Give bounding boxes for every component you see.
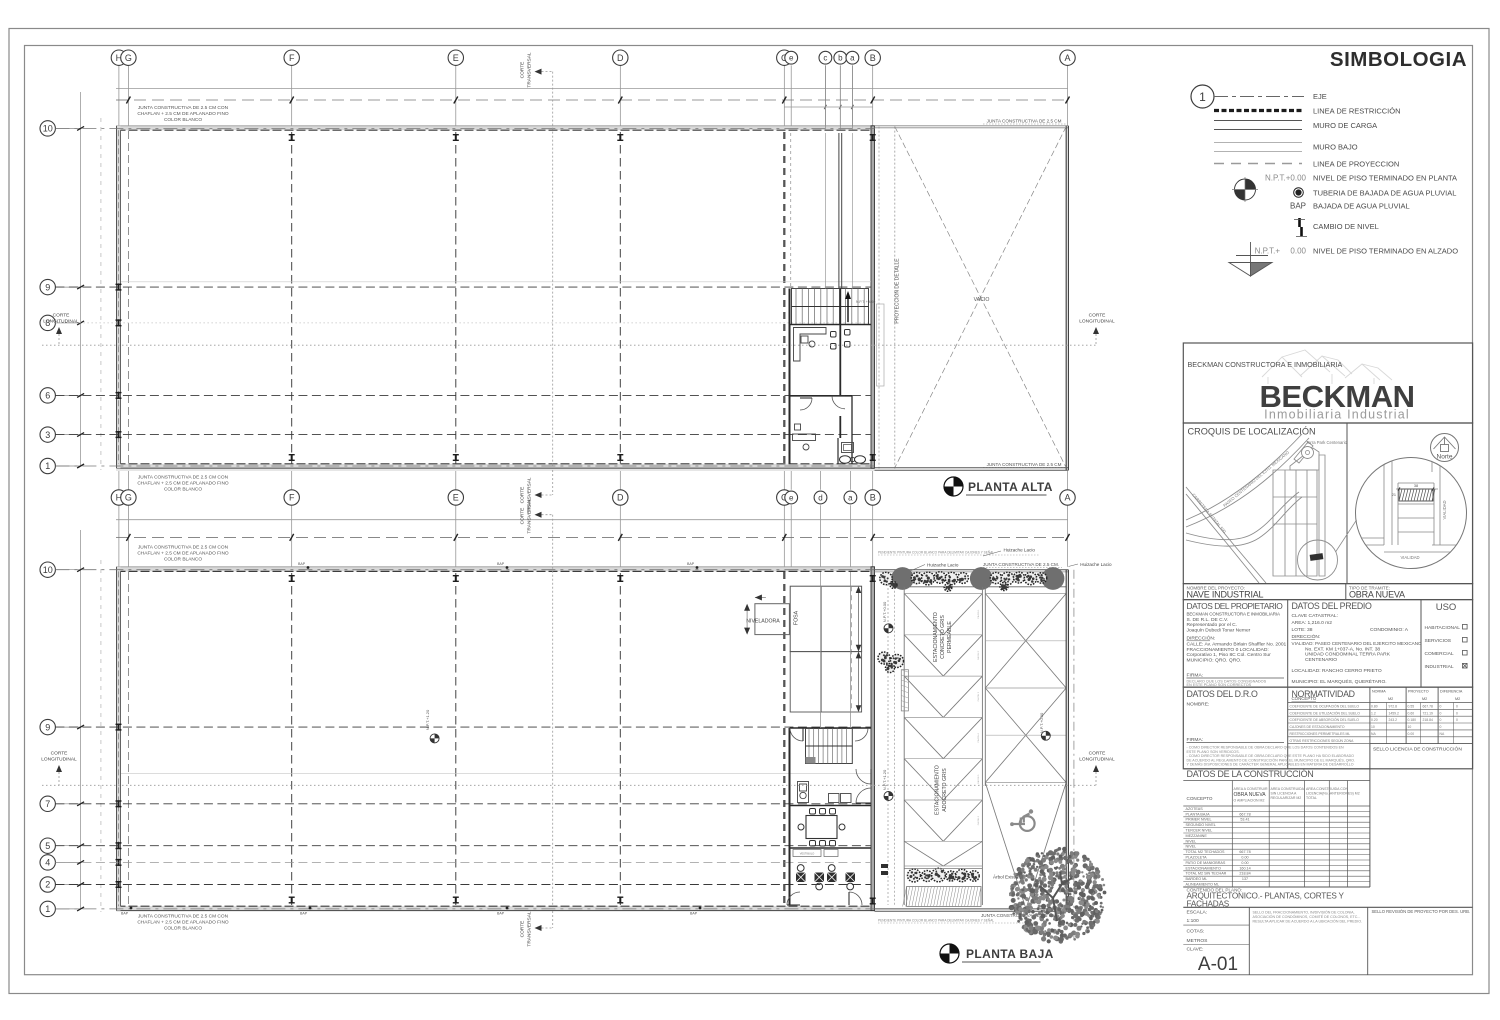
construccion table columns	[1231, 781, 1233, 888]
svg-text:VIALIDAD: VIALIDAD	[1400, 555, 1419, 560]
svg-text:53.41: 53.41	[1240, 818, 1249, 822]
corte longitudinal dotted line	[42, 344, 1097, 346]
svg-text:1459.2: 1459.2	[1389, 711, 1399, 715]
grid circle F (baja top)	[291, 505, 293, 567]
svg-text:REGULARIZAR M2: REGULARIZAR M2	[1271, 796, 1302, 800]
svg-text:CAJON 1: CAJON 1	[977, 609, 980, 619]
bay divider lines	[903, 587, 905, 905]
map site hatched lot	[1310, 553, 1324, 561]
column axis D dashed (alta)	[619, 132, 621, 464]
svg-text:AREA CONSTRUIDA CON: AREA CONSTRUIDA CON	[1306, 787, 1348, 791]
top dimension line	[116, 88, 1068, 90]
grid circle D (alta top)	[619, 65, 621, 125]
baja bottom wall	[117, 906, 875, 910]
grid circle a (baja top)	[849, 505, 851, 567]
map roundabout circle	[1302, 447, 1314, 459]
svg-text:Huizache Lacio: Huizache Lacio	[927, 563, 959, 568]
lower office desk	[793, 424, 816, 441]
faint projection line (baja)	[121, 773, 871, 775]
grid circle d (baja top)	[820, 505, 822, 567]
svg-text:Y DEMÁS DISPOSICIONES DE CARÁC: Y DEMÁS DISPOSICIONES DE CARÁCTER GENERA…	[1187, 763, 1354, 767]
svg-text:MURO BAJO: MURO BAJO	[1313, 143, 1358, 152]
svg-text:E: E	[453, 53, 459, 63]
svg-text:9: 9	[45, 282, 50, 292]
b axis line + wall	[839, 65, 841, 130]
column axis D dashed (baja)	[619, 573, 621, 905]
svg-text:PLANTA BAJA: PLANTA BAJA	[1186, 812, 1211, 816]
svg-text:10: 10	[43, 124, 53, 134]
column axis F dashed (baja)	[291, 573, 293, 905]
svg-text:CONCRETO GRIS: CONCRETO GRIS	[940, 615, 946, 659]
datos row box	[1183, 600, 1472, 688]
baja office top wall	[790, 727, 872, 729]
svg-text:AREA: 1,216.0 m2: AREA: 1,216.0 m2	[1292, 620, 1333, 626]
svg-text:METROS: METROS	[1187, 938, 1209, 944]
baja top wall	[117, 567, 875, 572]
interior wall mid office	[790, 395, 853, 397]
column axis E dashed (baja)	[455, 573, 457, 905]
baja left dimension line	[80, 530, 82, 909]
a axis line	[851, 65, 853, 130]
svg-text:21: 21	[1392, 493, 1396, 497]
dashed property line right	[1073, 570, 1075, 940]
left dimension line	[80, 92, 82, 466]
svg-text:A: A	[1064, 53, 1070, 63]
wall + label strip	[790, 847, 872, 849]
row 10 axis dashes (baja)	[55, 569, 874, 571]
svg-text:PATIO DE MANIOBRAS: PATIO DE MANIOBRAS	[1186, 861, 1226, 865]
svg-text:TOTAL M2 SIN TECHAR: TOTAL M2 SIN TECHAR	[1186, 872, 1227, 876]
grid circle row 8 (alta)	[55, 322, 80, 324]
svg-text:CLAVE:: CLAVE:	[1187, 947, 1204, 953]
svg-text:JUNTA CONSTRUCTIVA DE 2.5 CM: JUNTA CONSTRUCTIVA DE 2.5 CM CON	[138, 105, 229, 111]
svg-text:PERMEABLE: PERMEABLE	[947, 621, 953, 653]
svg-text:c: c	[823, 54, 827, 63]
row 3 dashed line	[55, 434, 871, 436]
desks upper office	[794, 328, 827, 362]
baja left wall	[117, 567, 121, 911]
svg-text:LONGITUDINAL: LONGITUDINAL	[1079, 319, 1115, 325]
svg-text:CAJON 2: CAJON 2	[977, 650, 980, 660]
fosa lower box	[790, 652, 861, 712]
svg-text:TUBERIA DE BAJADA DE AGUA PLUV: TUBERIA DE BAJADA DE AGUA PLUVIAL	[1313, 189, 1456, 198]
handicap symbol	[1010, 809, 1035, 831]
svg-text:COLOR BLANCO: COLOR BLANCO	[164, 117, 202, 123]
double entry doors right wall	[856, 769, 871, 784]
grid circle B (alta top)	[872, 65, 874, 125]
svg-text:CORTE: CORTE	[53, 313, 70, 319]
svg-text:CAJON 4: CAJON 4	[977, 733, 980, 743]
svg-text:2: 2	[45, 880, 50, 890]
svg-text:PLANTA BAJA: PLANTA BAJA	[966, 947, 1054, 961]
reception desk	[798, 782, 809, 803]
svg-text:BAP: BAP	[298, 562, 306, 566]
svg-text:CONDOMINIO: A: CONDOMINIO: A	[1370, 627, 1409, 633]
svg-text:Norte: Norte	[1437, 454, 1453, 461]
svg-text:ESCALA:: ESCALA:	[1187, 910, 1208, 916]
svg-text:COEFICIENTE DE ABSORCIÓN DEL S: COEFICIENTE DE ABSORCIÓN DEL SUELO	[1290, 717, 1360, 722]
grid circle E (baja top)	[455, 505, 457, 567]
svg-text:0.60: 0.60	[1408, 711, 1415, 715]
svg-text:0: 0	[1456, 718, 1458, 722]
svg-text:CAJONES DE ESTACIONAMIENTO: CAJONES DE ESTACIONAMIENTO	[1290, 725, 1345, 729]
croquis zoom circle	[1356, 458, 1467, 569]
svg-text:VACIO: VACIO	[974, 297, 990, 303]
svg-text:CENTENARIO: CENTENARIO	[1305, 657, 1337, 663]
svg-text:LONGITUDINAL: LONGITUDINAL	[43, 319, 79, 325]
svg-text:EJE: EJE	[1313, 92, 1327, 101]
svg-text:CHAFLAN + 2.5 CM DE APLANADO F: CHAFLAN + 2.5 CM DE APLANADO FINO	[137, 920, 229, 926]
svg-text:38: 38	[1414, 484, 1418, 488]
grid circle C (baja top)	[783, 505, 785, 567]
row 8 light line	[55, 322, 871, 324]
svg-text:0.20: 0.20	[1371, 718, 1378, 722]
svg-text:E: E	[453, 493, 459, 503]
svg-text:M2: M2	[1455, 697, 1460, 701]
svg-text:0: 0	[1440, 705, 1442, 709]
zoom circle hatched lot	[1399, 489, 1433, 501]
svg-text:BARDEO ML: BARDEO ML	[1186, 877, 1208, 881]
map development parcel outline	[1273, 442, 1325, 576]
grid circle row 7 (baja)	[55, 803, 80, 805]
svg-text:137: 137	[1242, 877, 1248, 881]
grid circle row 2 (baja)	[55, 884, 80, 886]
svg-text:FOSA: FOSA	[794, 610, 800, 625]
B wall column symbols	[870, 134, 876, 141]
workstation desks	[796, 873, 806, 883]
grid circle G (alta top)	[127, 65, 129, 125]
svg-text:667.78: 667.78	[1423, 705, 1433, 709]
grid circle row 9 (baja)	[55, 726, 80, 728]
row 4 dashed (baja)	[55, 861, 871, 863]
vacio area border	[878, 127, 880, 471]
svg-text:No. EXT. KM 1+037-A, No. INT.: No. EXT. KM 1+037-A, No. INT. 38	[1305, 646, 1380, 652]
svg-text:BAJADA DE AGUA PLUVIAL: BAJADA DE AGUA PLUVIAL	[1313, 202, 1410, 211]
svg-text:0: 0	[1440, 718, 1442, 722]
svg-text:TRANSVERSAL: TRANSVERSAL	[527, 498, 533, 534]
bottom hatch strip	[907, 887, 981, 907]
svg-text:SERVICIOS: SERVICIOS	[1425, 638, 1452, 644]
svg-text:ESTACIONAMIENTO: ESTACIONAMIENTO	[933, 612, 939, 662]
door arcs baja top	[790, 728, 803, 741]
svg-text:CAMBIO DE NIVEL: CAMBIO DE NIVEL	[1313, 222, 1379, 231]
meeting table	[806, 816, 837, 839]
svg-text:F: F	[289, 493, 295, 503]
svg-text:PENDIENTE PINTURA COLOR BLANCO: PENDIENTE PINTURA COLOR BLANCO PARA DELI…	[878, 918, 994, 923]
map S-curve road	[1186, 492, 1299, 540]
svg-text:ASOCIACIÓN DE CONDÓMINOS, COMI: ASOCIACIÓN DE CONDÓMINOS, COMITÉ DE COLO…	[1253, 914, 1361, 919]
svg-text:DATOS DEL PROPIETARIO: DATOS DEL PROPIETARIO	[1187, 601, 1284, 611]
svg-text:Inmobiliaria Industrial: Inmobiliaria Industrial	[1264, 408, 1410, 422]
svg-text:PLAZOLETA: PLAZOLETA	[1186, 856, 1208, 860]
door arcs alta office	[832, 396, 845, 409]
bottom planting bed shrubs	[908, 869, 921, 882]
svg-text:PROYECTO: PROYECTO	[1408, 690, 1429, 694]
svg-text:JUNTA CONSTRUCTIVA DE 2.5 CM: JUNTA CONSTRUCTIVA DE 2.5 CM CON	[138, 545, 229, 551]
svg-text:PRIMER NIVEL: PRIMER NIVEL	[1186, 818, 1212, 822]
alta left wall	[117, 126, 121, 468]
svg-text:0.00: 0.00	[1290, 247, 1306, 256]
svg-text:TRANSVERSAL: TRANSVERSAL	[527, 52, 533, 88]
svg-text:CORTE: CORTE	[51, 751, 68, 757]
svg-text:0.00: 0.00	[1408, 732, 1415, 736]
svg-text:S. DE R.L. DE C.V.: S. DE R.L. DE C.V.	[1187, 617, 1229, 623]
svg-text:10: 10	[1371, 725, 1375, 729]
bottom door arcs	[787, 892, 800, 905]
svg-text:NIVEL DE PISO TERMINADO EN ALZ: NIVEL DE PISO TERMINADO EN ALZADO	[1313, 247, 1458, 256]
svg-text:TRANSVERSAL: TRANSVERSAL	[527, 911, 533, 947]
row 7 dashed (baja)	[55, 803, 871, 805]
grid circle A (baja top)	[1067, 505, 1069, 567]
tree branches	[1040, 872, 1072, 921]
tree Huizache 1	[891, 567, 914, 590]
faint projection line (alta)	[121, 281, 871, 283]
svg-text:LONGITUDINAL: LONGITUDINAL	[41, 757, 77, 763]
svg-text:721.19: 721.19	[1423, 711, 1433, 715]
svg-text:1: 1	[45, 904, 50, 914]
alta right wall (B)	[871, 126, 875, 468]
svg-text:BAP: BAP	[497, 562, 505, 566]
svg-text:JUNTA CONSTRUCTIVA DE 2.5 CM: JUNTA CONSTRUCTIVA DE 2.5 CM CON	[138, 475, 229, 481]
svg-text:1:100: 1:100	[1187, 918, 1200, 924]
legend MURO BAJO	[1214, 142, 1302, 144]
svg-text:TOTAL M2 TECHADOS: TOTAL M2 TECHADOS	[1186, 850, 1226, 854]
svg-text:0.00: 0.00	[1241, 856, 1248, 860]
svg-text:CLAVE CATASTRAL:: CLAVE CATASTRAL:	[1292, 613, 1338, 619]
svg-text:UNIDAD CONDOMINAL TERRA PARK: UNIDAD CONDOMINAL TERRA PARK	[1305, 652, 1391, 658]
alta bottom wall	[117, 464, 875, 468]
svg-text:D: D	[617, 493, 624, 503]
FOSA box	[790, 586, 861, 651]
grid circle B (baja top)	[872, 505, 874, 567]
svg-text:CORTE: CORTE	[1089, 313, 1106, 319]
svg-text:B: B	[870, 53, 876, 63]
BECKMAN company box	[1183, 343, 1472, 423]
svg-text:ESTACIONAMIENTO: ESTACIONAMIENTO	[935, 765, 941, 815]
walkway shrub cluster	[878, 652, 890, 664]
legend npt quartered circle symbol	[1235, 179, 1256, 200]
d axis through office	[820, 572, 822, 728]
row 1 axis dashes	[55, 465, 874, 467]
grid circle b (alta top)	[839, 65, 841, 125]
corte longitudinal dotted (baja)	[42, 784, 1097, 786]
left dashed axis line	[100, 118, 102, 470]
stairs (baja)	[806, 729, 853, 764]
svg-text:Corporativo 1, Piso 8C Col. Ce: Corporativo 1, Piso 8C Col. Centro Sur	[1187, 652, 1272, 658]
svg-text:e: e	[789, 54, 794, 63]
svg-text:DIRECCIÓN:: DIRECCIÓN:	[1187, 635, 1216, 642]
parking area (baja right)	[887, 572, 889, 905]
last compressed stall row	[904, 841, 943, 866]
svg-text:0.55: 0.55	[1408, 705, 1415, 709]
svg-text:N.P.T.+0.00: N.P.T.+0.00	[1039, 712, 1044, 733]
svg-text:NIVEL DE PISO TERMINADO EN PLA: NIVEL DE PISO TERMINADO EN PLANTA	[1313, 174, 1457, 183]
grid circle F (alta top)	[291, 65, 293, 125]
svg-text:LINEA DE RESTRICCIÓN: LINEA DE RESTRICCIÓN	[1313, 107, 1401, 116]
tree Huizache 3	[1042, 567, 1065, 590]
svg-text:Huizache Lacio: Huizache Lacio	[1004, 548, 1036, 553]
svg-text:BAP: BAP	[497, 912, 505, 916]
planting band top edge	[875, 569, 1069, 571]
grid circle a (alta top)	[851, 65, 853, 125]
vacio right wall (A)	[1065, 126, 1067, 471]
svg-text:4: 4	[45, 858, 50, 868]
svg-text:SELLO DEL FRACCIONAMIENTO, IN/: SELLO DEL FRACCIONAMIENTO, IN/DIVISIÓN D…	[1253, 910, 1355, 915]
svg-text:b: b	[838, 54, 843, 63]
svg-text:LINEA DE PROYECCION: LINEA DE PROYECCION	[1313, 160, 1399, 169]
svg-text:NA: NA	[1440, 732, 1445, 736]
svg-text:9: 9	[45, 722, 50, 732]
svg-text:3: 3	[45, 430, 50, 440]
office left wall	[789, 289, 791, 465]
svg-text:DE ACUERDO AL REGLAMENTO DE CO: DE ACUERDO AL REGLAMENTO DE CONSTRUCCIÓN…	[1187, 757, 1355, 762]
legend LINEA DE PROYECCION	[1214, 163, 1302, 165]
svg-text:Terra Park Centenario: Terra Park Centenario	[1306, 440, 1348, 445]
right bay lower stalls	[985, 783, 1026, 909]
grid circle row 3 (alta)	[55, 434, 80, 436]
svg-text:CALLE: Av. Armando Birlain S: CALLE: Av. Armando Birlain Shaffler No. …	[1187, 642, 1287, 648]
svg-text:A: A	[1064, 493, 1070, 503]
svg-text:ALINEAMIENTO ML: ALINEAMIENTO ML	[1186, 883, 1220, 887]
bench marks	[881, 864, 888, 868]
legend alzado level triangle symbol	[1250, 242, 1252, 273]
c axis line	[824, 65, 826, 130]
svg-text:NIVEL: NIVEL	[1186, 845, 1197, 849]
grid circle row 4 (baja)	[55, 861, 80, 863]
croquis de localizacion box	[1183, 423, 1472, 584]
legend MURO DE CARGA	[1214, 120, 1302, 122]
grid circle row 1 (alta)	[55, 465, 80, 467]
svg-text:AREA CONSTRUIDA: AREA CONSTRUIDA	[1271, 787, 1305, 791]
svg-text:0: 0	[1456, 711, 1458, 715]
svg-text:FIRMA:: FIRMA:	[1187, 737, 1204, 743]
svg-text:COLOR BLANCO: COLOR BLANCO	[164, 487, 202, 493]
svg-text:PLANTA ALTA: PLANTA ALTA	[968, 480, 1053, 494]
svg-text:ESTACIONAMIENTO: ESTACIONAMIENTO	[1186, 866, 1221, 870]
svg-text:N.P.T.+: N.P.T.+	[1255, 247, 1281, 256]
svg-text:JUNTA CONSTRUCTIVA DE 2.5 CM: JUNTA CONSTRUCTIVA DE 2.5 CM	[987, 462, 1062, 467]
svg-text:0.80: 0.80	[1371, 705, 1378, 709]
svg-text:1: 1	[1199, 90, 1206, 104]
svg-text:MURO DE CARGA: MURO DE CARGA	[1313, 121, 1377, 130]
svg-text:LICENCIA(No.)ANTERIORES) M2: LICENCIA(No.)ANTERIORES) M2	[1306, 792, 1360, 796]
svg-text:BAP: BAP	[300, 912, 308, 916]
svg-text:BAP: BAP	[690, 912, 698, 916]
row 6 dashed line	[55, 394, 871, 396]
column axis E dashed (alta)	[455, 132, 457, 464]
sello licencia box	[1370, 743, 1473, 745]
svg-text:TOTAL: TOTAL	[1306, 796, 1317, 800]
b axis wall in office	[839, 289, 841, 396]
svg-text:1.2: 1.2	[1371, 711, 1376, 715]
svg-text:NIVELADORA: NIVELADORA	[746, 619, 780, 625]
big existing tree	[1009, 847, 1107, 944]
svg-text:VESTIBULO: VESTIBULO	[800, 852, 815, 856]
zoom circle streets	[1356, 458, 1466, 552]
row 1 axis dashes (baja)	[55, 908, 874, 910]
svg-text:SIN LICENCIA A: SIN LICENCIA A	[1271, 792, 1298, 796]
C axis heavy dashed (alta)	[783, 132, 785, 464]
svg-text:M2: M2	[1388, 697, 1393, 701]
svg-text:G: G	[125, 493, 132, 503]
svg-text:N.P.T.+0.00: N.P.T.+0.00	[882, 601, 887, 622]
svg-text:0: 0	[1456, 705, 1458, 709]
grid circle row 9 (alta)	[55, 286, 80, 288]
svg-text:JUNTA CONSTRUCTIVA DE 2.5 CM.: JUNTA CONSTRUCTIVA DE 2.5 CM.	[983, 562, 1059, 567]
PLANTA ALTA title	[944, 477, 963, 496]
svg-text:HABITACIONAL: HABITACIONAL	[1425, 625, 1461, 631]
svg-text:1: 1	[45, 461, 50, 471]
normatividad table	[1369, 687, 1371, 744]
svg-text:10: 10	[1408, 725, 1412, 729]
bathroom fixtures alta	[837, 438, 839, 464]
svg-text:CORTE: CORTE	[520, 508, 526, 525]
svg-text:INDUSTRIAL: INDUSTRIAL	[1425, 664, 1454, 670]
svg-text:972.8: 972.8	[1389, 705, 1398, 709]
office chairs	[831, 332, 837, 338]
svg-text:6: 6	[45, 391, 50, 401]
svg-text:OTRAS RESTRICCIONES SEGÚN ZONA: OTRAS RESTRICCIONES SEGÚN ZONA	[1290, 738, 1355, 743]
legend LINEA DE RESTRICCION	[1214, 109, 1302, 112]
grid circle e (baja top)	[790, 505, 792, 567]
svg-text:VIALIDAD: PASEO CENTENARIO DE: VIALIDAD: PASEO CENTENARIO DEL EJERCITO …	[1292, 641, 1423, 646]
grid circle E (alta top)	[455, 65, 457, 125]
svg-text:CROQUIS DE LOCALIZACIÓN: CROQUIS DE LOCALIZACIÓN	[1188, 427, 1316, 437]
svg-text:BECKMAN CONSTRUCTORA E INMOBIL: BECKMAN CONSTRUCTORA E INMOBILIARIA	[1187, 612, 1281, 617]
parking right wall (A axis)	[1065, 570, 1067, 912]
svg-text:D: D	[617, 53, 624, 63]
svg-text:TERCER NIVEL: TERCER NIVEL	[1186, 829, 1213, 833]
svg-text:10: 10	[43, 565, 53, 575]
fosa dimension arrows	[858, 590, 860, 648]
svg-text:a: a	[850, 54, 855, 63]
svg-text:F: F	[289, 53, 295, 63]
reception shelves	[829, 794, 840, 803]
svg-text:MUNICIPIO: EL MARQUÉS, QU: MUNICIPIO: EL MARQUÉS, QUERÉTARO.	[1292, 678, 1387, 685]
grid circle c (alta top)	[824, 65, 826, 125]
svg-text:VIALIDAD: VIALIDAD	[1442, 500, 1447, 519]
svg-text:PROYECCION DE DETALLE: PROYECCION DE DETALLE	[895, 258, 901, 324]
ramp hatch rect	[901, 670, 908, 711]
svg-text:NIVEL: NIVEL	[1186, 839, 1197, 843]
baja ticked axis line	[116, 536, 1068, 538]
leader from site to zoom circle	[1336, 520, 1357, 552]
svg-text:Huizache Lacio: Huizache Lacio	[1080, 562, 1112, 567]
svg-text:a: a	[848, 493, 853, 502]
svg-text:LONGITUDINAL: LONGITUDINAL	[1079, 757, 1115, 763]
svg-text:SEGUNDO NIVEL: SEGUNDO NIVEL	[1186, 823, 1216, 827]
baja office left wall	[789, 728, 791, 905]
svg-text:160.14: 160.14	[1239, 866, 1250, 870]
parking stall pattern right bay	[985, 593, 1066, 595]
grid circle H (alta top)	[118, 65, 120, 125]
nombre del proyecto row	[1183, 584, 1472, 600]
svg-text:CONCEPTO: CONCEPTO	[1187, 796, 1213, 801]
svg-text:NA: NA	[1371, 732, 1376, 736]
svg-text:CORTE: CORTE	[520, 487, 526, 504]
faint building sketch above logo	[1262, 350, 1392, 384]
svg-text:M2: M2	[1422, 697, 1427, 701]
svg-text:FRACCIONAMIENTO 0 LOCALIDAD:: FRACCIONAMIENTO 0 LOCALIDAD:	[1187, 647, 1269, 653]
svg-text:CAJON 6: CAJON 6	[977, 815, 980, 825]
map site detail circle	[1298, 540, 1338, 580]
svg-text:COLOR BLANCO: COLOR BLANCO	[164, 926, 202, 932]
svg-text:G: G	[125, 53, 132, 63]
baja G axis dashed	[127, 572, 129, 906]
G axis dashed	[127, 131, 129, 464]
contenido del plano	[1183, 886, 1370, 888]
parking bottom edge	[875, 908, 1069, 910]
